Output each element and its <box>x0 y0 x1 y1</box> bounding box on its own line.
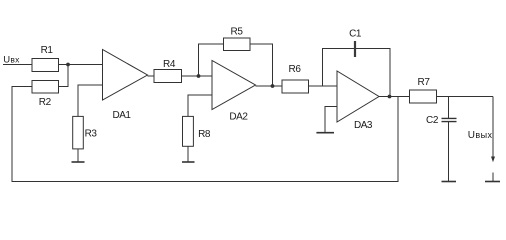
svg-text:R8: R8 <box>198 129 211 140</box>
svg-text:C1: C1 <box>349 28 362 39</box>
svg-text:R6: R6 <box>289 64 302 75</box>
svg-text:Uвх: Uвх <box>3 55 20 66</box>
svg-text:C2: C2 <box>426 115 439 126</box>
svg-text:R7: R7 <box>418 77 431 88</box>
svg-text:R3: R3 <box>85 128 98 139</box>
svg-text:R2: R2 <box>39 97 52 108</box>
svg-text:R5: R5 <box>231 26 244 37</box>
svg-text:DA2: DA2 <box>229 112 248 123</box>
svg-text:DA3: DA3 <box>354 120 373 131</box>
svg-text:R1: R1 <box>41 45 54 56</box>
svg-text:R4: R4 <box>163 59 176 70</box>
svg-text:Uвых: Uвых <box>468 130 493 141</box>
svg-text:DA1: DA1 <box>113 110 132 121</box>
